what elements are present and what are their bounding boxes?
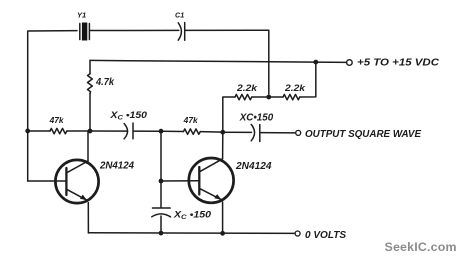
wire C1 to feedback node <box>186 30 269 94</box>
svg-text:2N4124: 2N4124 <box>99 160 134 171</box>
transistor Q1 <box>28 131 99 233</box>
capacitor XC series coupling <box>90 123 159 139</box>
resistor 47k first <box>28 128 90 133</box>
svg-text:C1: C1 <box>175 11 184 20</box>
svg-text:XC •150: XC •150 <box>173 209 211 221</box>
transistor Q2 <box>189 132 234 233</box>
wire 2.2k left leg <box>223 97 235 132</box>
node D junction Q1 collector <box>88 129 93 134</box>
svg-text:4.7k: 4.7k <box>95 77 114 88</box>
node F junction Q2 collector <box>220 130 225 135</box>
svg-text:47k: 47k <box>49 116 65 125</box>
terminal V+ <box>347 60 353 66</box>
svg-text:47k: 47k <box>183 116 199 125</box>
crystal Y1 <box>80 23 90 41</box>
wire crystal to C1 <box>91 29 179 31</box>
svg-text:2.2k: 2.2k <box>284 83 306 94</box>
svg-text:XC•150: XC•150 <box>239 112 274 123</box>
svg-text:2N4124: 2N4124 <box>235 161 272 172</box>
svg-text:2.2k: 2.2k <box>236 83 258 94</box>
terminal output <box>296 130 301 135</box>
svg-text:XC •150: XC •150 <box>109 110 147 122</box>
resistor 2.2k first <box>235 94 269 99</box>
node A junction 2.2k midpoint <box>266 95 271 100</box>
capacitor XC output coupling <box>223 124 296 141</box>
capacitor C1 <box>178 23 185 41</box>
resistor 47k second <box>161 129 223 134</box>
svg-text:OUTPUT SQUARE WAVE: OUTPUT SQUARE WAVE <box>305 129 421 140</box>
node E junction after series cap <box>159 129 164 134</box>
wire top feedback left segment <box>28 31 77 181</box>
node H junction bottom shunt cap <box>159 231 164 236</box>
resistor 4.7k <box>88 60 93 131</box>
resistor 2.2k second <box>269 62 316 100</box>
capacitor XC shunt <box>152 208 171 233</box>
terminal 0 volts <box>295 231 300 236</box>
wire Q2 base <box>161 180 199 182</box>
wire V+ rail <box>90 60 346 62</box>
wire ground rail <box>88 232 295 235</box>
node B junction V+ <box>313 60 318 65</box>
svg-text:+5 TO +15 VDC: +5 TO +15 VDC <box>357 58 440 69</box>
node G junction Q2 base <box>159 179 164 184</box>
svg-text:0 VOLTS: 0 VOLTS <box>305 230 346 241</box>
node I junction Q2 emitter ground <box>220 231 225 236</box>
svg-text:Y1: Y1 <box>77 11 86 20</box>
wire mid vertical to Q2 base <box>160 131 162 207</box>
svg-text:SeekIC.com: SeekIC.com <box>385 240 457 254</box>
node C junction left rail / 47k <box>25 129 30 134</box>
